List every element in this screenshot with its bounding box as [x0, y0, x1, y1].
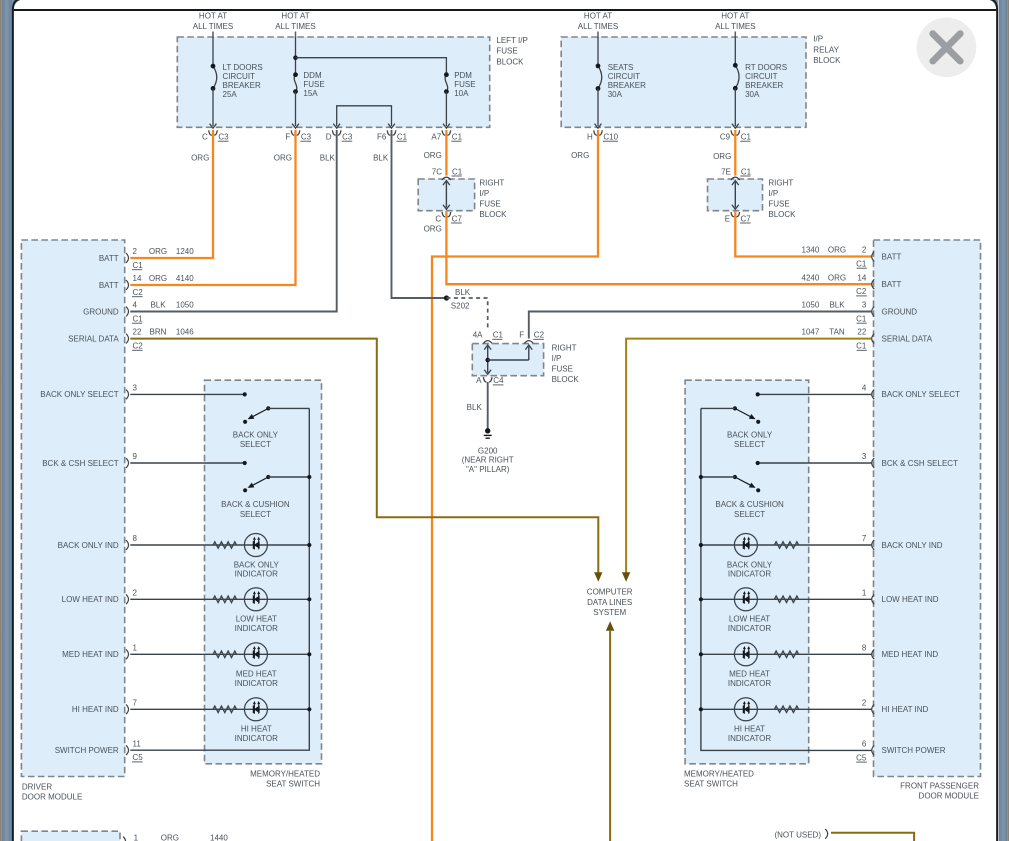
resistor MED HEAT indicator (driver) [213, 651, 236, 657]
svg-text:4240: 4240 [802, 273, 820, 282]
fuse block: RIGHT I/P FUSE BLOCK (middle) [472, 344, 543, 376]
wire serial data to lower section [609, 631, 611, 841]
svg-text:6: 6 [862, 740, 867, 749]
svg-text:BRN: BRN [150, 328, 167, 337]
LED indicator HI HEAT INDICATOR (driver) [244, 698, 267, 721]
svg-text:10A: 10A [454, 89, 469, 98]
connector E C7 [731, 212, 740, 217]
svg-text:3: 3 [133, 384, 138, 393]
junction bus [307, 652, 311, 656]
svg-text:S202: S202 [451, 302, 470, 311]
resistor LOW HEAT indicator (driver) [213, 596, 236, 602]
pin 2 passenger module [872, 704, 875, 714]
svg-text:C10: C10 [603, 133, 618, 142]
pin 1 lower module [123, 837, 126, 841]
svg-text:15A: 15A [303, 89, 318, 98]
svg-text:1046: 1046 [176, 328, 194, 337]
svg-text:C1: C1 [856, 342, 867, 351]
top divider rule [14, 9, 996, 11]
svg-text:MEMORY/HEATED: MEMORY/HEATED [250, 770, 320, 779]
svg-text:I/P: I/P [768, 189, 778, 198]
wire battery feed [734, 32, 736, 38]
circuit breaker RT DOORS CIRCUIT BREAKER 30A [733, 63, 787, 99]
wire battery feed [295, 32, 297, 38]
wire bck & csh select (driver) [130, 462, 244, 464]
ground G200 [484, 428, 492, 438]
resistor BACK ONLY indicator (driver) [213, 542, 236, 548]
connector C C7 [442, 212, 451, 217]
wire battery feed [597, 32, 599, 38]
svg-text:A: A [476, 376, 482, 385]
wire ORG 4140 F to driver BATT pin 14 [130, 130, 295, 285]
wire battery feed [212, 32, 214, 38]
pin 8 driver module [126, 540, 129, 550]
wire into DDM fuse [295, 37, 297, 75]
module (cut off at bottom) [21, 831, 120, 841]
junction bus [699, 652, 703, 656]
svg-text:HI HEAT: HI HEAT [734, 725, 765, 734]
svg-text:F: F [519, 331, 524, 340]
pin 4 driver module [126, 307, 129, 317]
svg-text:HOT AT: HOT AT [721, 12, 749, 21]
svg-text:3: 3 [862, 301, 867, 310]
svg-text:C5: C5 [133, 753, 144, 762]
switch BACK & CUSHION SELECT (passenger) [701, 475, 760, 493]
svg-text:C: C [202, 133, 208, 142]
svg-text:G200: G200 [478, 447, 498, 456]
svg-text:ORG: ORG [191, 153, 209, 162]
wire BACK ONLY indicator row (driver) [130, 544, 309, 546]
wire LOW HEAT indicator row (driver) [130, 598, 309, 600]
svg-text:GROUND: GROUND [83, 307, 119, 316]
svg-text:C1: C1 [741, 167, 752, 176]
module: DRIVER DOOR MODULE [21, 240, 124, 777]
junction bus [307, 597, 311, 601]
svg-text:1440: 1440 [210, 834, 228, 841]
svg-text:1: 1 [862, 588, 867, 597]
svg-text:GROUND: GROUND [882, 307, 918, 316]
svg-text:C3: C3 [342, 133, 353, 142]
pin 8 passenger module [872, 649, 875, 659]
svg-text:RIGHT: RIGHT [479, 179, 504, 188]
corner fill right [986, 0, 998, 12]
svg-text:ORG: ORG [149, 247, 167, 256]
svg-text:RT DOORS: RT DOORS [745, 63, 787, 72]
svg-text:11: 11 [133, 739, 142, 748]
svg-text:22: 22 [133, 328, 142, 337]
pin 22 passenger module [872, 334, 875, 344]
svg-text:C1: C1 [452, 133, 463, 142]
svg-text:SERIAL DATA: SERIAL DATA [882, 334, 933, 343]
svg-text:BATT: BATT [882, 280, 902, 289]
arrowhead at F6 [388, 124, 395, 129]
svg-text:4140: 4140 [176, 274, 194, 283]
svg-text:C7: C7 [741, 214, 752, 223]
LED indicator BACK ONLY INDICATOR (driver) [244, 534, 267, 557]
svg-text:9: 9 [133, 452, 138, 461]
pin 2 passenger module [872, 252, 875, 262]
svg-text:C1: C1 [133, 261, 144, 270]
svg-text:1050: 1050 [176, 301, 194, 310]
svg-text:ORG: ORG [571, 151, 589, 160]
svg-text:2: 2 [133, 247, 138, 256]
svg-text:ALL TIMES: ALL TIMES [715, 22, 755, 31]
svg-text:C2: C2 [534, 331, 545, 340]
svg-text:F: F [285, 133, 290, 142]
svg-text:PDM: PDM [454, 71, 472, 80]
pin 9 driver module [126, 458, 129, 468]
switch BACK & CUSHION SELECT (driver) [243, 475, 309, 493]
svg-text:BACK ONLY SELECT: BACK ONLY SELECT [40, 390, 119, 399]
svg-text:LOW HEAT IND: LOW HEAT IND [62, 595, 119, 604]
svg-text:BLOCK: BLOCK [479, 210, 507, 219]
circuit breaker SEATS CIRCUIT BREAKER 30A [596, 63, 647, 99]
svg-text:BACK ONLY: BACK ONLY [727, 431, 773, 440]
svg-text:FUSE: FUSE [496, 47, 517, 56]
svg-text:7C: 7C [432, 167, 442, 176]
svg-text:C9: C9 [720, 133, 731, 142]
corner fill left [12, 0, 24, 12]
LED indicator MED HEAT INDICATOR (driver) [244, 643, 267, 666]
svg-text:C1: C1 [133, 315, 144, 324]
svg-text:BREAKER: BREAKER [745, 81, 783, 90]
junction feed to PDM [293, 55, 298, 60]
wire MED HEAT indicator row (driver) [130, 653, 309, 655]
fuse PDM FUSE 10A [444, 71, 476, 98]
svg-text:14: 14 [857, 273, 866, 282]
junction bus [307, 543, 311, 547]
right page-edge strip [1007, 0, 1009, 841]
svg-text:FRONT PASSENGER: FRONT PASSENGER [900, 781, 979, 790]
svg-text:H: H [587, 133, 593, 142]
wire ORG 4240 C7 to passenger BATT pin 14 [446, 211, 871, 284]
svg-text:INDICATOR: INDICATOR [728, 679, 771, 688]
pin 2 driver module [126, 253, 129, 263]
arrowhead computer data lines (left) [594, 572, 602, 582]
svg-text:COMPUTER: COMPUTER [587, 588, 633, 597]
svg-text:C3: C3 [218, 133, 229, 142]
svg-text:ORG: ORG [424, 151, 442, 160]
svg-text:MED HEAT: MED HEAT [236, 670, 277, 679]
pin 4 passenger module [872, 390, 875, 400]
svg-text:BLOCK: BLOCK [813, 56, 841, 65]
wire HI HEAT indicator row (passenger) [701, 708, 872, 710]
svg-text:1: 1 [133, 643, 138, 652]
svg-text:F6: F6 [377, 133, 387, 142]
resistor LOW HEAT indicator (passenger) [774, 596, 798, 602]
wire breaker to connector C [212, 88, 214, 126]
svg-text:7: 7 [862, 534, 867, 543]
svg-text:SEAT SWITCH: SEAT SWITCH [684, 779, 738, 788]
LED indicator MED HEAT INDICATOR (passenger) [734, 643, 757, 666]
svg-text:C2: C2 [133, 288, 144, 297]
wire into SEATS breaker [597, 37, 599, 66]
svg-text:C: C [435, 214, 441, 223]
svg-text:BLK: BLK [455, 288, 471, 297]
pin 3 driver module [126, 390, 129, 400]
svg-text:I/P: I/P [552, 354, 562, 363]
switch assembly: MEMORY/HEATED SEAT SWITCH (driver) [205, 380, 322, 764]
junction bus [699, 597, 703, 601]
svg-text:DATA LINES: DATA LINES [587, 598, 632, 607]
pin 3 passenger module [872, 458, 875, 468]
svg-text:BCK & CSH SELECT: BCK & CSH SELECT [42, 459, 119, 468]
arrowhead at D [333, 124, 340, 129]
svg-text:3: 3 [862, 452, 867, 461]
svg-text:8: 8 [133, 534, 138, 543]
wire PDM fuse to connector A7 [445, 92, 447, 126]
internal wire 4A to A with branch to F [487, 347, 489, 373]
wire feed DDM to PDM [296, 58, 447, 75]
panel border right [987, 0, 997, 841]
svg-text:INDICATOR: INDICATOR [728, 570, 771, 579]
svg-text:HI HEAT IND: HI HEAT IND [882, 705, 929, 714]
svg-text:MED HEAT IND: MED HEAT IND [62, 650, 119, 659]
svg-text:FUSE: FUSE [479, 200, 500, 209]
pin not used [825, 829, 828, 839]
svg-text:25A: 25A [223, 90, 238, 99]
arrowhead at C [210, 124, 217, 129]
svg-text:C3: C3 [301, 133, 312, 142]
svg-text:BLK: BLK [373, 153, 389, 162]
junction bus [307, 707, 311, 711]
svg-text:HI HEAT IND: HI HEAT IND [72, 705, 119, 714]
svg-text:C7: C7 [452, 214, 463, 223]
switch BACK ONLY SELECT (passenger) [701, 406, 760, 424]
svg-text:BREAKER: BREAKER [608, 81, 646, 90]
connector F C3 [291, 130, 300, 135]
fuse DDM FUSE 15A [293, 71, 325, 98]
svg-text:2: 2 [862, 698, 867, 707]
svg-text:INDICATOR: INDICATOR [235, 679, 278, 688]
switch bus (passenger) [701, 408, 872, 750]
svg-text:MEMORY/HEATED: MEMORY/HEATED [684, 770, 754, 779]
svg-text:INDICATOR: INDICATOR [235, 624, 278, 633]
svg-text:LOW HEAT: LOW HEAT [236, 615, 277, 624]
panel border left [13, 0, 23, 841]
svg-text:TAN: TAN [829, 328, 845, 337]
svg-text:1050: 1050 [802, 301, 820, 310]
svg-text:SEAT SWITCH: SEAT SWITCH [266, 779, 320, 788]
svg-text:BLK: BLK [467, 403, 483, 412]
svg-text:ORG: ORG [828, 246, 846, 255]
svg-text:ORG: ORG [424, 224, 442, 233]
svg-text:SWITCH POWER: SWITCH POWER [882, 746, 946, 755]
svg-text:INDICATOR: INDICATOR [235, 570, 278, 579]
svg-text:C1: C1 [397, 133, 408, 142]
svg-text:RELAY: RELAY [813, 45, 839, 54]
svg-text:BACK ONLY IND: BACK ONLY IND [882, 541, 943, 550]
connector A7 C1 [442, 130, 451, 135]
svg-text:FUSE: FUSE [303, 80, 324, 89]
svg-text:BACK ONLY SELECT: BACK ONLY SELECT [882, 390, 961, 399]
svg-text:7E: 7E [721, 167, 731, 176]
internal through-wire with arrows [734, 182, 736, 208]
circuit breaker LT DOORS CIRCUIT BREAKER 25A [211, 63, 263, 99]
wire back only select (passenger) [758, 393, 872, 395]
svg-text:BATT: BATT [99, 281, 119, 290]
svg-text:1: 1 [134, 834, 139, 841]
svg-text:C1: C1 [856, 315, 867, 324]
svg-text:ORG: ORG [274, 153, 292, 162]
wire ORG 1340 E C7 to passenger BATT pin 2 [735, 211, 871, 257]
splice S202 [444, 295, 449, 300]
relay block: I/P RELAY BLOCK [561, 37, 806, 127]
svg-text:BATT: BATT [882, 252, 902, 261]
arrowhead at C9 [732, 124, 739, 129]
svg-text:C1: C1 [856, 260, 867, 269]
junction bus/back&cushion [699, 475, 703, 479]
svg-text:SERIAL DATA: SERIAL DATA [68, 334, 119, 343]
pin 11 driver module [126, 745, 129, 755]
svg-text:ORG: ORG [149, 274, 167, 283]
svg-text:8: 8 [862, 643, 867, 652]
pin 1 passenger module [872, 594, 875, 604]
wire from not-used pin to lower section [831, 833, 914, 841]
svg-text:BCK & CSH SELECT: BCK & CSH SELECT [882, 459, 959, 468]
svg-text:HOT AT: HOT AT [281, 12, 309, 21]
svg-text:ALL TIMES: ALL TIMES [275, 22, 315, 31]
svg-text:4: 4 [862, 384, 867, 393]
wire BRN 1046 serial data driver to computer data lines [130, 339, 598, 573]
svg-text:BLK: BLK [320, 153, 336, 162]
svg-text:D: D [326, 133, 332, 142]
connector F6 C1 [387, 130, 396, 135]
arrowhead at H [595, 124, 602, 129]
wire ORG H C10 feed down to lower section [432, 130, 598, 841]
svg-text:DOOR MODULE: DOOR MODULE [22, 793, 82, 802]
wire back only select (driver) [130, 393, 244, 395]
pin 1 driver module [126, 649, 129, 659]
svg-text:SYSTEM: SYSTEM [593, 608, 626, 617]
svg-text:C1: C1 [493, 331, 504, 340]
svg-text:SELECT: SELECT [734, 510, 765, 519]
svg-text:1340: 1340 [802, 246, 820, 255]
svg-text:LEFT I/P: LEFT I/P [496, 36, 527, 45]
svg-text:BLOCK: BLOCK [768, 210, 796, 219]
fuse block: RIGHT I/P FUSE BLOCK (under A7) [418, 179, 474, 211]
svg-text:SELECT: SELECT [240, 440, 271, 449]
LED indicator BACK ONLY INDICATOR (passenger) [734, 534, 757, 557]
wire into RT DOORS breaker [734, 37, 736, 65]
junction inside fuse block [485, 358, 490, 363]
wire BLK F6 C1 to splice S202 [392, 130, 447, 298]
pin 3 passenger module [872, 307, 875, 317]
svg-text:I/P: I/P [479, 189, 489, 198]
svg-text:MED HEAT IND: MED HEAT IND [882, 650, 939, 659]
junction bus [699, 543, 703, 547]
wire into LT DOORS breaker [212, 37, 214, 66]
arrowhead at F [292, 124, 299, 129]
svg-text:30A: 30A [745, 90, 760, 99]
pin 22 driver module [126, 334, 129, 344]
svg-text:BATT: BATT [99, 254, 119, 263]
svg-text:BACK ONLY: BACK ONLY [727, 560, 773, 569]
wire TAN 1047 serial data passenger to computer data lines [626, 339, 871, 573]
svg-text:BACK & CUSHION: BACK & CUSHION [715, 500, 784, 509]
svg-text:1047: 1047 [802, 328, 820, 337]
wire bck & csh select (passenger) [758, 462, 872, 464]
svg-text:C5: C5 [856, 753, 867, 762]
svg-text:BREAKER: BREAKER [223, 81, 261, 90]
wire LOW HEAT indicator row (passenger) [701, 598, 872, 600]
svg-text:C1: C1 [741, 133, 752, 142]
svg-text:C2: C2 [133, 342, 144, 351]
svg-text:(NEAR RIGHT: (NEAR RIGHT [462, 456, 514, 465]
svg-text:FUSE: FUSE [454, 80, 475, 89]
svg-text:I/P: I/P [813, 35, 823, 44]
switch assembly: MEMORY/HEATED SEAT SWITCH (passenger) [685, 380, 809, 764]
wire BLK 1050 D C3 to driver GROUND pin 4 [130, 130, 336, 312]
svg-text:SELECT: SELECT [734, 440, 765, 449]
svg-text:C1: C1 [452, 167, 463, 176]
svg-text:ORG: ORG [713, 152, 731, 161]
svg-text:DDM: DDM [303, 71, 322, 80]
wire SEATS breaker to connector H [597, 89, 599, 127]
svg-text:HOT AT: HOT AT [584, 12, 612, 21]
connector D C3 [332, 130, 341, 135]
svg-text:1240: 1240 [176, 247, 194, 256]
resistor BACK ONLY indicator (passenger) [774, 542, 798, 548]
connector H C10 [594, 130, 603, 135]
pin 7 driver module [126, 704, 129, 714]
LED indicator HI HEAT INDICATOR (passenger) [734, 698, 757, 721]
fuse block: RIGHT I/P FUSE BLOCK (under C9) [708, 179, 763, 211]
svg-text:BLK: BLK [150, 301, 166, 310]
svg-text:C4: C4 [493, 376, 504, 385]
svg-text:LOW HEAT IND: LOW HEAT IND [882, 595, 939, 604]
svg-text:BACK ONLY: BACK ONLY [233, 431, 279, 440]
wire BLK dashed S202 to 4A [447, 298, 488, 331]
svg-text:RIGHT: RIGHT [768, 179, 793, 188]
junction bus/back&cushion [307, 475, 311, 479]
wire HI HEAT indicator row (driver) [130, 708, 309, 710]
svg-text:C2: C2 [856, 287, 867, 296]
svg-text:SEATS: SEATS [608, 63, 634, 72]
svg-text:7: 7 [133, 698, 138, 707]
svg-text:INDICATOR: INDICATOR [728, 624, 771, 633]
svg-text:LT DOORS: LT DOORS [223, 63, 263, 72]
svg-text:14: 14 [133, 274, 142, 283]
LED indicator LOW HEAT INDICATOR (passenger) [734, 588, 757, 611]
pin 14 passenger module [872, 279, 875, 289]
svg-text:4A: 4A [473, 331, 483, 340]
svg-text:DRIVER: DRIVER [22, 783, 52, 792]
svg-text:BLK: BLK [829, 301, 845, 310]
fuse block: LEFT I/P FUSE BLOCK [177, 37, 489, 127]
svg-text:SWITCH POWER: SWITCH POWER [55, 746, 119, 755]
wire BLK 1050 F C2 to passenger GROUND pin 3 [529, 312, 872, 339]
svg-text:E: E [725, 214, 730, 223]
svg-text:CIRCUIT: CIRCUIT [745, 72, 778, 81]
pin 14 driver module [126, 280, 129, 290]
svg-text:SELECT: SELECT [240, 510, 271, 519]
svg-text:HI HEAT: HI HEAT [241, 725, 272, 734]
svg-text:ALL TIMES: ALL TIMES [578, 22, 618, 31]
svg-text:2: 2 [862, 246, 867, 255]
wire ORG 1240 C3 to driver BATT pin 2 [130, 130, 213, 258]
svg-text:LOW HEAT: LOW HEAT [729, 615, 770, 624]
switch BACK ONLY SELECT (driver) [243, 406, 309, 424]
pin 7 passenger module [872, 540, 875, 550]
arrowhead at A7 [443, 124, 450, 129]
svg-text:(NOT USED): (NOT USED) [774, 831, 821, 840]
resistor HI HEAT indicator (passenger) [774, 706, 798, 712]
svg-text:CIRCUIT: CIRCUIT [223, 72, 256, 81]
resistor MED HEAT indicator (passenger) [774, 651, 798, 657]
svg-text:FUSE: FUSE [768, 200, 789, 209]
internal through-wire with arrows [445, 182, 447, 208]
